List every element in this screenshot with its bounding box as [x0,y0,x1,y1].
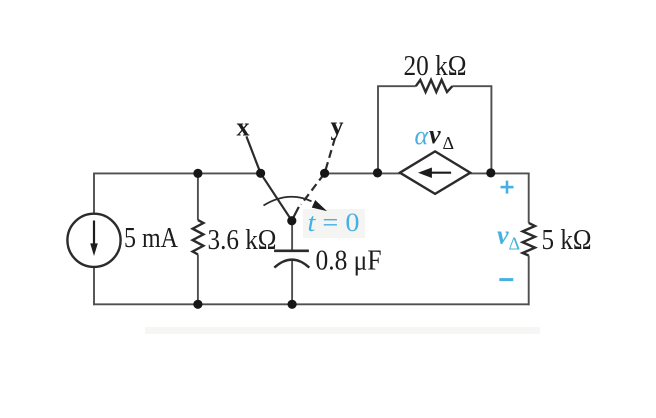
wire: 20k loop top-left segment [377,85,416,87]
wire: diamond right to top-right corner [470,172,529,174]
node dot: bottom of 3.6k [193,300,202,309]
wire: right vertical upper (corner to 5k resistor) [528,173,530,223]
current source arrow [90,221,98,257]
node dot: top of 3.6k [193,169,202,178]
wire: left vertical lower (source bottom to bottom rail) [93,267,95,305]
dependent source diamond [400,151,470,194]
label v-delta [497,221,520,254]
wire: bottom rail [93,303,529,305]
minus sign (v-delta polarity) [499,278,513,281]
wire: 20k loop top-right segment [452,85,492,87]
switch dashed blade (y terminal toward pivot) [301,138,335,205]
switch solid blade (pivot to x terminal) [246,136,291,220]
dependent source arrow [418,168,451,179]
wire: capacitor branch upper (pivot to top plate) [291,221,293,250]
svg-text:v: v [429,120,441,149]
wire: y-node to diamond left [325,172,400,174]
svg-text:x: x [237,113,250,142]
label alpha-v-delta [415,120,455,153]
switch arc arrowhead [312,200,327,211]
wire: 20k loop right vertical [490,86,492,173]
plus sign (v-delta polarity) [501,181,514,194]
resistor 20 kOhm (horizontal zigzag) [416,80,453,92]
capacitor 0.8 uF top plate [274,250,309,253]
wire: 3.6k branch lower [197,254,199,304]
svg-text:Δ: Δ [509,233,521,253]
svg-text:y: y [331,112,344,141]
node dot: bottom of capacitor branch [288,300,297,309]
wire: left vertical upper (corner to source top) [93,173,95,214]
svg-text:v: v [497,221,509,250]
resistor 3.6 kOhm (vertical zigzag) [193,220,204,254]
svg-text:5 mA: 5 mA [124,223,179,254]
node dot: switch y terminal [320,169,329,178]
svg-text:Δ: Δ [443,133,455,153]
switch motion arc [264,197,312,206]
wire: 20k loop left vertical [377,86,379,173]
svg-text:3.6 kΩ: 3.6 kΩ [208,225,277,256]
svg-text:20 kΩ: 20 kΩ [404,51,467,82]
node dot: diamond right [486,168,495,177]
wire: right vertical lower (5k resistor to bottom rail) [528,256,530,306]
node dot: switch pivot [287,216,296,225]
node dot: diamond left [373,168,382,177]
resistor 5 kOhm (vertical zigzag) [523,223,535,256]
wire: top-left horizontal (left rail to switch x-node) [94,172,261,174]
svg-text:α: α [415,121,430,150]
svg-text:5 kΩ: 5 kΩ [542,225,592,256]
capacitor 0.8 uF curved plate [274,260,309,268]
wire: 3.6k branch upper [197,173,199,220]
node dot: switch x terminal [256,169,265,178]
svg-text:0.8 μF: 0.8 μF [316,245,382,276]
svg-text:t = 0: t = 0 [308,208,360,237]
wire: capacitor branch lower (curved plate to bottom rail) [291,261,293,305]
switch blade stub at pivot [292,207,299,221]
current source I1 circle [67,214,120,267]
